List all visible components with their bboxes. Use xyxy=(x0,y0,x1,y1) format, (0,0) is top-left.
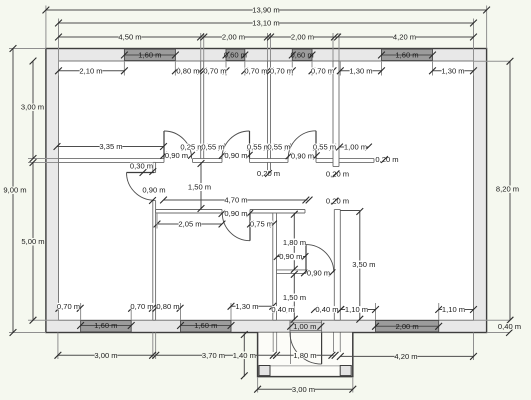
dim 1,30 m b xyxy=(429,67,477,76)
svg-text:1,60 m: 1,60 m xyxy=(395,51,418,60)
wall bath-east vertical xyxy=(334,210,340,321)
dim 1,30 m a xyxy=(337,67,385,76)
dim 0,90 m door2 xyxy=(219,151,253,160)
extension lines bottom windows xyxy=(59,303,439,320)
dim 0,20 m wall-end xyxy=(375,155,398,164)
dim 1,10 m a xyxy=(337,305,379,314)
svg-text:1,60 m: 1,60 m xyxy=(94,321,117,330)
svg-text:1,50 m: 1,50 m xyxy=(283,293,306,302)
svg-text:0,70 m: 0,70 m xyxy=(203,67,226,76)
window 1,60 top-right xyxy=(378,49,436,60)
svg-text:1,80 m: 1,80 m xyxy=(283,238,306,247)
door hallway-south xyxy=(222,213,250,241)
svg-text:0,80 m: 0,80 m xyxy=(156,302,179,311)
front door opening 1,00 xyxy=(287,320,324,332)
outer wall xyxy=(46,49,487,333)
dim 3,35 m xyxy=(54,142,167,151)
dim 4,70 m xyxy=(160,196,312,205)
svg-text:1,30 m: 1,30 m xyxy=(441,67,464,76)
dim 0,70 m d xyxy=(309,67,337,76)
front door leaf xyxy=(290,333,322,365)
svg-text:3,00 m: 3,00 m xyxy=(94,351,117,360)
svg-text:3,35 m: 3,35 m xyxy=(99,142,122,151)
svg-text:3,00 m: 3,00 m xyxy=(292,385,315,394)
dim 4,50 m xyxy=(55,33,202,42)
dim 2,00 m a xyxy=(197,33,269,42)
dim 0,70 m bl-a xyxy=(56,302,84,312)
svg-text:1,80 m: 1,80 m xyxy=(293,351,316,360)
dim 0,40 m bath-a xyxy=(271,305,294,314)
svg-text:0,70 m: 0,70 m xyxy=(311,67,334,76)
dim 3,70 m xyxy=(154,351,280,360)
svg-text:2,00 m: 2,00 m xyxy=(291,33,314,42)
svg-text:5,00 m: 5,00 m xyxy=(21,237,44,246)
dim 13,10 m xyxy=(55,19,477,28)
svg-text:0,55 m: 0,55 m xyxy=(201,143,224,152)
dim 1,40 m xyxy=(233,331,256,379)
svg-text:0,40 m: 0,40 m xyxy=(498,322,521,331)
svg-text:9,00 m: 9,00 m xyxy=(3,186,26,195)
dim 0,90 m door3 xyxy=(286,152,320,161)
dim 3,50 m xyxy=(340,208,375,323)
svg-text:1,10 m: 1,10 m xyxy=(442,305,465,314)
dim 0,30 m xyxy=(130,162,156,175)
svg-text:4,20 m: 4,20 m xyxy=(394,352,417,361)
dim 13,90 m xyxy=(43,6,491,15)
svg-text:1,60 m: 1,60 m xyxy=(194,321,217,330)
svg-text:3,70 m: 3,70 m xyxy=(202,351,225,360)
svg-text:0,70 m: 0,70 m xyxy=(57,302,80,311)
wall C vertical xyxy=(333,61,339,167)
dim 2,05 m xyxy=(154,213,226,229)
svg-text:4,70 m: 4,70 m xyxy=(224,196,247,205)
svg-text:0,60 m: 0,60 m xyxy=(224,51,247,60)
extension lines bottom chain xyxy=(58,333,474,365)
svg-text:1,30 m: 1,30 m xyxy=(349,67,372,76)
svg-text:3,50 m: 3,50 m xyxy=(352,260,375,269)
dim 8,20 m xyxy=(496,58,519,324)
dim 0,55 m b xyxy=(247,143,271,152)
svg-text:0,80 m: 0,80 m xyxy=(176,67,199,76)
dim 0,80 m xyxy=(172,67,204,76)
window 2,00 bottom-right xyxy=(372,321,442,332)
dim 0,40 m right xyxy=(498,322,521,336)
dim 5,00 m xyxy=(21,159,44,324)
svg-text:0,30 m: 0,30 m xyxy=(130,162,153,171)
dim 1,00 m top xyxy=(336,143,372,152)
svg-text:0,60 m: 0,60 m xyxy=(290,51,313,60)
svg-text:1,60 m: 1,60 m xyxy=(138,51,161,60)
dim 0,25 m xyxy=(180,143,203,152)
dim 0,20 m wall-C xyxy=(326,170,349,179)
dim 3,00 m left xyxy=(21,58,44,162)
dim 4,20 m top xyxy=(331,33,477,42)
dim 0,20 m wall-D xyxy=(326,197,349,206)
svg-text:2,00 m: 2,00 m xyxy=(395,322,418,331)
dim 0,70 m c xyxy=(267,67,296,76)
dim 0,55 m a xyxy=(201,143,225,152)
porch outline xyxy=(258,333,353,377)
dim 0,55 m c xyxy=(267,143,291,152)
porch pillar left xyxy=(259,366,270,376)
door bathroom xyxy=(306,245,334,273)
wall mid horizontal xyxy=(59,159,375,163)
svg-text:0,40 m: 0,40 m xyxy=(315,305,338,314)
dim 0,70 m b xyxy=(241,67,271,76)
dim 4,20 m bottom xyxy=(337,352,477,361)
door room3 xyxy=(288,131,316,159)
svg-text:0,55 m: 0,55 m xyxy=(313,143,336,152)
porch pillar right xyxy=(340,366,351,376)
svg-text:13,10 m: 13,10 m xyxy=(252,19,279,28)
extension lines top corners xyxy=(46,6,487,62)
svg-text:0,70 m: 0,70 m xyxy=(130,302,153,311)
svg-text:1,10 m: 1,10 m xyxy=(345,305,368,314)
svg-text:0,70 m: 0,70 m xyxy=(244,67,267,76)
svg-text:0,75 m: 0,75 m xyxy=(250,220,273,229)
door room2 xyxy=(222,131,250,159)
wall bath-west vertical xyxy=(273,213,277,320)
window 0,60 top-mid-left xyxy=(223,49,249,60)
dim 1,80 m porch xyxy=(275,351,339,360)
extension lines left side xyxy=(9,49,59,333)
svg-text:0,20 m: 0,20 m xyxy=(326,170,349,179)
svg-text:0,90 m: 0,90 m xyxy=(291,152,314,161)
dim 0,90 m door4 xyxy=(140,169,166,204)
dim 0,40 m bath-b xyxy=(311,305,344,314)
wall bath-north horizontal xyxy=(277,270,307,274)
extension lines porch xyxy=(258,377,353,393)
window 0,60 top-mid-right xyxy=(289,49,316,60)
svg-text:13,90 m: 13,90 m xyxy=(252,6,279,15)
dim 0,70 m bl-b xyxy=(128,302,156,312)
wall hall-left vertical xyxy=(153,162,156,320)
svg-text:1,50 m: 1,50 m xyxy=(188,183,211,192)
extension lines right side xyxy=(474,61,511,332)
svg-text:0,90 m: 0,90 m xyxy=(224,151,247,160)
door bottom-left room xyxy=(127,173,155,201)
window 1,60 top-left xyxy=(121,49,179,60)
svg-text:8,20 m: 8,20 m xyxy=(496,185,519,194)
svg-text:0,90 m: 0,90 m xyxy=(224,209,247,218)
svg-text:0,70 m: 0,70 m xyxy=(270,67,293,76)
svg-text:0,90 m: 0,90 m xyxy=(307,269,330,278)
dim 0,70 m a xyxy=(200,67,229,76)
dim 3,00 m porch xyxy=(254,385,356,394)
dim 0,90 m door1 xyxy=(160,151,195,160)
svg-text:2,10 m: 2,10 m xyxy=(79,67,102,76)
dim 0,20 m stub-B xyxy=(257,169,280,178)
dim 0,75 m xyxy=(247,220,277,229)
svg-text:4,50 m: 4,50 m xyxy=(118,33,141,42)
dim 0,55 m d xyxy=(313,143,336,152)
svg-text:1,00 m: 1,00 m xyxy=(344,143,367,152)
svg-text:1,00 m: 1,00 m xyxy=(293,322,316,331)
svg-text:0,90 m: 0,90 m xyxy=(279,252,302,261)
svg-text:2,05 m: 2,05 m xyxy=(178,220,201,229)
svg-text:0,90 m: 0,90 m xyxy=(142,186,165,195)
dim 1,50 m bath xyxy=(283,271,306,323)
dim 0,80 m bl xyxy=(153,302,184,312)
dim 1,50 m hall xyxy=(188,160,211,212)
wall lower-mid horizontal xyxy=(156,210,305,214)
svg-text:0,55 m: 0,55 m xyxy=(267,143,290,152)
window 1,60 bottom-left xyxy=(77,321,134,332)
door room1 xyxy=(164,131,192,159)
svg-text:1,30 m: 1,30 m xyxy=(235,302,258,311)
wall A vertical xyxy=(201,61,204,159)
svg-text:0,40 m: 0,40 m xyxy=(271,305,294,314)
wall B vertical xyxy=(268,61,271,171)
svg-text:1,40 m: 1,40 m xyxy=(233,351,256,360)
dim 1,10 m b xyxy=(435,305,477,314)
svg-text:0,90 m: 0,90 m xyxy=(165,151,188,160)
extension lines top interior walls xyxy=(201,33,339,61)
dim 0,90 m bath-west xyxy=(274,252,309,261)
dim 0,90 m door5 xyxy=(219,209,254,218)
dim 0,90 m door6 xyxy=(301,269,335,278)
porch step line xyxy=(258,365,352,367)
dim 1,30 m bl xyxy=(228,302,277,311)
svg-text:2,00 m: 2,00 m xyxy=(222,33,245,42)
window 1,60 bottom-mid xyxy=(177,321,234,332)
dim 9,00 m xyxy=(3,45,26,336)
dim 2,00 m b xyxy=(264,33,336,42)
extension lines top windows xyxy=(59,61,474,76)
dim 1,80 m bath xyxy=(283,211,306,273)
svg-text:3,00 m: 3,00 m xyxy=(21,103,44,112)
dim 3,00 m bottom xyxy=(55,351,160,360)
svg-text:4,20 m: 4,20 m xyxy=(393,33,416,42)
dim 2,10 m xyxy=(55,67,128,76)
